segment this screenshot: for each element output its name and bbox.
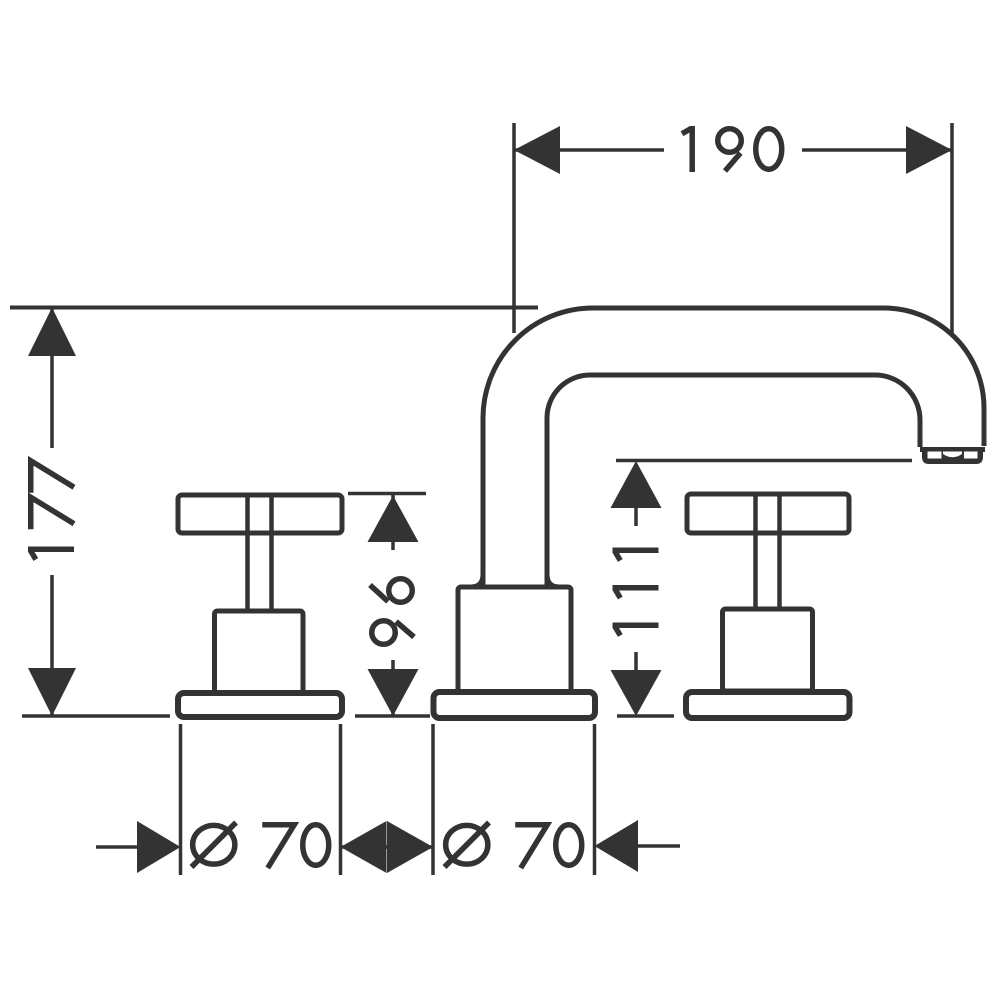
spout base body <box>458 587 571 694</box>
dimension 190 left extension line <box>512 123 516 333</box>
dimension 177 label <box>22 448 80 575</box>
aerator body <box>922 449 983 464</box>
dimension 96 top tick <box>348 492 426 496</box>
spout outlet end face <box>920 447 985 452</box>
spout tube fillet right <box>547 574 559 587</box>
right handle body <box>723 609 813 691</box>
dimension 190 left arrowhead <box>514 126 560 174</box>
dimension 177 dimension line <box>50 308 54 717</box>
dimension 111 down arrowhead <box>611 670 662 716</box>
dimension 96 label <box>364 550 420 660</box>
baseline middle segment <box>355 714 430 718</box>
diameter 70 center: left extension line <box>431 724 435 875</box>
dimension 111 dimension line <box>634 508 638 670</box>
diameter 70 left: arrowhead <box>137 821 181 873</box>
spacing dimension line between escutcheons <box>341 845 434 849</box>
diameter 70 left: label <box>192 823 329 869</box>
left handle cross bar <box>178 495 342 533</box>
dimension 96 down arrowhead <box>368 669 419 716</box>
dimension 111 up arrowhead <box>611 461 662 508</box>
diameter 70 center: right extension line <box>593 724 597 875</box>
reference line top (spout height datum) <box>10 306 538 310</box>
dimension 190 dimension line <box>514 148 952 152</box>
diameter 70 center: label <box>445 823 582 869</box>
dimension 190 right extension line <box>950 123 954 333</box>
diameter 70 left: leader line <box>96 845 140 849</box>
dimension 190 right arrowhead <box>906 126 952 174</box>
diameter 70 left: right extension line <box>339 724 343 875</box>
dimension 96 up arrowhead <box>368 496 419 543</box>
aerator white slot center <box>943 452 962 458</box>
dimension 111 bottom tick <box>617 714 674 718</box>
right handle stem <box>753 496 758 610</box>
diameter 70 left: left extension line <box>179 724 183 875</box>
aerator white slot left <box>928 452 942 459</box>
right handle cross bar <box>687 494 849 533</box>
spacing left arrowhead <box>341 821 387 873</box>
dimension 177 down arrowhead <box>28 668 76 716</box>
dimension 111 reference line <box>616 459 912 463</box>
spacing right arrowhead <box>387 821 433 873</box>
right escutcheon <box>686 692 850 718</box>
aerator white slot right <box>964 452 978 459</box>
spout tube fillet left <box>471 574 483 587</box>
left handle stem <box>245 497 250 611</box>
left handle body <box>215 611 304 693</box>
dimension 190 label <box>664 118 802 182</box>
spout outer profile <box>483 308 984 588</box>
baseline left segment <box>22 714 170 718</box>
diameter 70 center: arrowhead <box>595 820 639 872</box>
diameter 70 center: leader line <box>638 844 680 848</box>
dimension 177 up arrowhead <box>28 308 76 357</box>
left escutcheon <box>178 693 342 717</box>
dimension 96 dimension line <box>391 495 395 716</box>
dimension 111 label <box>610 526 663 652</box>
spout inner profile <box>547 375 920 588</box>
spout base escutcheon <box>434 692 596 718</box>
